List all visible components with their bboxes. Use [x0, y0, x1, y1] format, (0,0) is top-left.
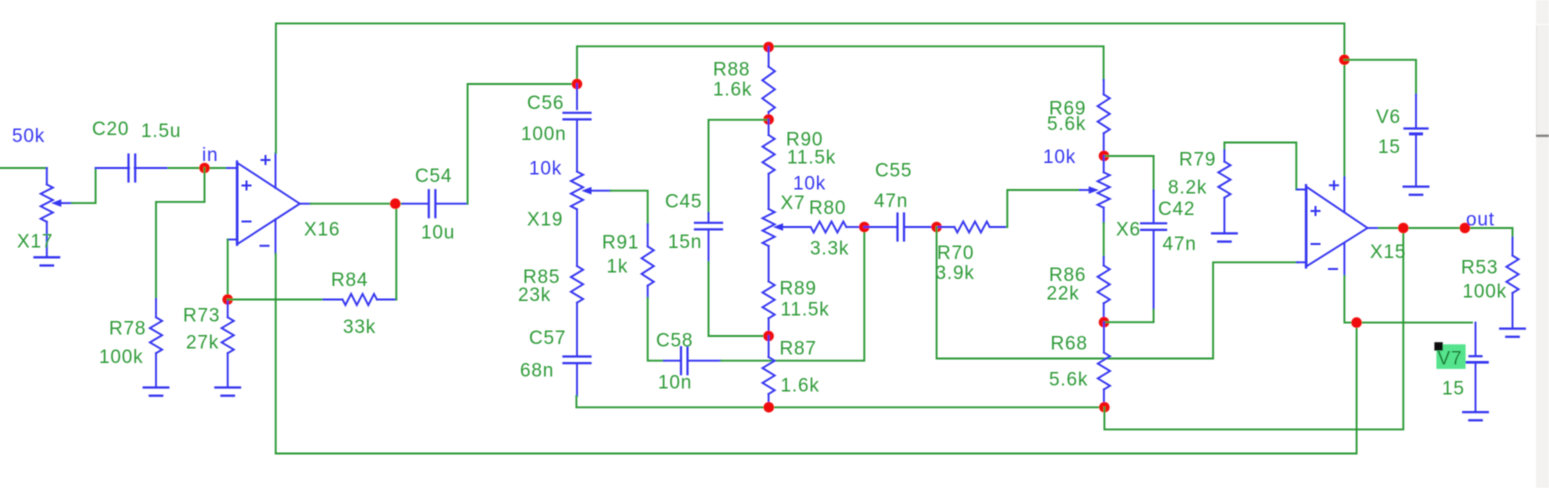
svg-text:C42: C42: [1158, 199, 1195, 220]
wire C54 up to C56 node: [468, 84, 571, 204]
label 23k (R85 value): [518, 285, 551, 306]
svg-text:10k: 10k: [529, 159, 562, 180]
svg-text:C54: C54: [415, 166, 452, 187]
label 11.5k (R90 value): [787, 148, 836, 169]
resistor R89: [763, 281, 775, 336]
svg-text:X6: X6: [1116, 220, 1141, 241]
svg-text:100n: 100n: [521, 124, 566, 145]
label 47n (C42 value): [1163, 234, 1197, 255]
svg-text:50k: 50k: [12, 126, 45, 147]
label X7: [781, 193, 806, 214]
label R87: [780, 339, 817, 360]
svg-text:68n: 68n: [520, 361, 554, 382]
label 5.6k (R68 value): [1049, 370, 1088, 391]
label 15n (C45 value): [668, 232, 702, 253]
wire R88 to C45: [709, 120, 769, 213]
wire X16 output: [311, 203, 403, 205]
svg-text:R91: R91: [602, 233, 639, 254]
capacitor C58: [664, 347, 721, 374]
svg-text:8.2k: 8.2k: [1168, 178, 1207, 199]
label R70: [937, 243, 974, 264]
label R79: [1179, 150, 1216, 171]
resistor R80: [811, 222, 859, 233]
label R91: [602, 233, 639, 254]
svg-text:11.5k: 11.5k: [781, 300, 830, 321]
wire R91 to C58: [648, 298, 664, 361]
resistor R88: [762, 47, 775, 119]
svg-text:R80: R80: [809, 198, 846, 219]
wire R86 node to C42 bottom: [1104, 310, 1154, 323]
svg-text:15: 15: [1442, 379, 1465, 400]
wire X6 to R86: [1103, 208, 1105, 266]
V7 selection highlight: [1434, 342, 1465, 369]
wire C45 to R89 node: [709, 262, 769, 336]
svg-text:5.6k: 5.6k: [1049, 370, 1088, 391]
label R89: [780, 279, 817, 300]
wire X7 to R89: [768, 246, 770, 281]
label 3.3k (R80 value): [810, 239, 849, 260]
capacitor C57: [564, 357, 591, 397]
label 10u (C54 value): [421, 223, 455, 244]
svg-text:V7: V7: [1438, 349, 1463, 370]
label 10k (X7 value): [793, 174, 826, 195]
node R86 bottom junction: [1099, 317, 1110, 328]
wire in to R78: [156, 168, 205, 299]
resistor R87: [763, 336, 775, 407]
svg-text:X7: X7: [781, 193, 806, 214]
label X6: [1116, 220, 1141, 241]
scrollbar thumb: [1536, 24, 1549, 136]
resistor R85: [571, 209, 583, 355]
svg-text:R78: R78: [109, 319, 146, 340]
svg-text:1.6k: 1.6k: [781, 376, 820, 397]
svg-text:27k: 27k: [186, 333, 219, 354]
wire V- rail bottom: [276, 254, 1357, 454]
svg-text:15n: 15n: [668, 232, 702, 253]
label C56: [527, 93, 564, 114]
label R88: [713, 60, 750, 81]
op-amp X15: [1297, 177, 1379, 276]
wire C58 to R80 node: [721, 227, 864, 361]
svg-text:C58: C58: [656, 331, 693, 352]
svg-text:5.6k: 5.6k: [1047, 114, 1086, 135]
label R90: [786, 130, 823, 151]
svg-text:11.5k: 11.5k: [787, 148, 836, 169]
svg-text:1k: 1k: [607, 257, 629, 278]
svg-text:10n: 10n: [658, 373, 692, 394]
label R85: [523, 267, 560, 288]
wire X19 wiper to R91: [611, 191, 648, 225]
resistor R91: [642, 224, 654, 298]
label out (node name): [1466, 210, 1495, 231]
svg-text:10u: 10u: [421, 223, 455, 244]
ground R53: [1500, 329, 1525, 337]
label 10k (X19 value): [529, 159, 562, 180]
label 100n (C56 value): [521, 124, 566, 145]
svg-text:X15: X15: [1370, 242, 1406, 263]
node R73 junction: [222, 294, 233, 305]
label R53: [1461, 258, 1498, 279]
wire C55 node to X15 minus: [937, 227, 1298, 359]
svg-text:1.5u: 1.5u: [141, 121, 181, 142]
label R68: [1051, 334, 1088, 355]
label 47n (C55 value): [874, 191, 908, 212]
battery V7: [1465, 323, 1488, 411]
resistor R70: [937, 222, 1007, 233]
svg-text:X19: X19: [527, 210, 563, 231]
svg-text:10k: 10k: [793, 174, 826, 195]
wire C20 to opamp: [168, 167, 227, 169]
ground R78: [144, 388, 169, 396]
svg-text:V6: V6: [1376, 107, 1401, 128]
label V7: [1438, 349, 1463, 370]
capacitor C20: [96, 155, 169, 182]
label 8.2k (R79 value): [1168, 178, 1207, 199]
svg-text:R53: R53: [1461, 258, 1498, 279]
wire X15 output: [1379, 228, 1513, 238]
label R78: [109, 319, 146, 340]
label X19: [527, 210, 563, 231]
label 10n (C58 value): [658, 373, 692, 394]
node R87 bottom junction: [764, 402, 775, 413]
resistor R84: [324, 294, 397, 305]
resistor R86: [1098, 266, 1110, 323]
label R86: [1049, 265, 1086, 286]
resistor R79: [1218, 150, 1230, 232]
svg-text:R84: R84: [331, 270, 368, 291]
wire R69 node to C42: [1104, 156, 1154, 190]
svg-text:C56: C56: [527, 93, 564, 114]
label C20: [92, 119, 129, 140]
node out junction: [1460, 223, 1471, 234]
label 1.6k (R88 value): [713, 80, 752, 101]
capacitor C45: [695, 213, 722, 262]
svg-text:47n: 47n: [874, 191, 908, 212]
node in junction: [199, 163, 210, 174]
svg-text:R88: R88: [713, 60, 750, 81]
resistor R68: [1098, 322, 1110, 407]
resistor R78: [150, 299, 162, 387]
node V+ rail junction: [1339, 55, 1350, 66]
label 15 (V7 value): [1442, 379, 1465, 400]
label V6: [1376, 107, 1401, 128]
label 33k (R84 value): [343, 317, 376, 338]
ground V7: [1463, 412, 1488, 420]
svg-text:C45: C45: [665, 192, 702, 213]
label X17: [17, 232, 53, 253]
label C45: [665, 192, 702, 213]
svg-text:10k: 10k: [1043, 147, 1076, 168]
resistor R53: [1506, 238, 1518, 327]
label 100k (R53 value): [1463, 282, 1507, 303]
label R69: [1049, 99, 1086, 120]
svg-text:R70: R70: [937, 243, 974, 264]
svg-text:R73: R73: [183, 306, 220, 327]
node X16 output junction: [390, 198, 401, 209]
svg-text:C20: C20: [92, 119, 129, 140]
resistor R90: [763, 120, 775, 210]
label 15 (V6 value): [1378, 137, 1401, 158]
label 50k (X17 value): [12, 126, 45, 147]
label 68n (C57 value): [520, 361, 554, 382]
wire R70 to X6 wiper: [1007, 190, 1080, 227]
potentiometer X6: [1080, 156, 1110, 208]
resistor R69: [1098, 80, 1110, 156]
potentiometer X7: [763, 209, 811, 246]
svg-text:33k: 33k: [343, 317, 376, 338]
ground X17: [35, 257, 60, 265]
label C54: [415, 166, 452, 187]
wire V+ to V6: [1344, 60, 1416, 95]
wire X16 minus input: [227, 240, 229, 300]
svg-text:1.6k: 1.6k: [713, 80, 752, 101]
scrollbar track: [1536, 0, 1549, 488]
svg-text:15: 15: [1378, 137, 1401, 158]
svg-text:C55: C55: [875, 161, 912, 182]
label 5.6k (R69 value): [1047, 114, 1086, 135]
label 27k (R73 value): [186, 333, 219, 354]
svg-text:100k: 100k: [99, 347, 143, 368]
label 1k (R91 value): [607, 257, 629, 278]
ground R73: [215, 388, 240, 396]
label C58: [656, 331, 693, 352]
node R88 top junction: [763, 42, 774, 53]
node Vminus junction: [1351, 317, 1362, 328]
capacitor C55: [864, 214, 936, 241]
node R80 C55 junction: [859, 222, 870, 233]
wire R68 node to out node: [1104, 228, 1403, 429]
label R73: [183, 306, 220, 327]
svg-text:23k: 23k: [518, 285, 551, 306]
potentiometer X19: [571, 172, 611, 210]
label 10k (X6 value): [1043, 147, 1076, 168]
svg-text:C57: C57: [529, 328, 566, 349]
wire X17 wiper: [72, 169, 96, 203]
label X15: [1370, 242, 1406, 263]
capacitor C42: [1141, 190, 1166, 309]
svg-text:22k: 22k: [1047, 284, 1080, 305]
svg-text:out: out: [1466, 210, 1495, 231]
wire R73 to R84: [228, 299, 324, 301]
label 22k (R86 value): [1047, 284, 1080, 305]
node X15 output junction: [1398, 223, 1409, 234]
label C57: [529, 328, 566, 349]
label 3.9k (R70 value): [936, 263, 975, 284]
capacitor C54: [403, 190, 468, 217]
wire X15 Vminus: [1344, 276, 1472, 323]
node R89 bottom junction: [763, 331, 774, 342]
label 1.5u (C20 value): [141, 121, 181, 142]
svg-text:R68: R68: [1051, 334, 1088, 355]
wire R84 to C54 node: [395, 204, 397, 300]
resistor R73: [222, 300, 234, 387]
node R88 bottom junction: [763, 114, 774, 125]
wire V+ rail top: [276, 23, 1345, 177]
node C55 R70 junction: [931, 222, 942, 233]
svg-text:3.9k: 3.9k: [936, 263, 975, 284]
wire bottom node: [576, 396, 1104, 407]
svg-text:X16: X16: [304, 220, 340, 241]
ground V6: [1404, 187, 1429, 195]
svg-text:R87: R87: [780, 339, 817, 360]
battery V6: [1405, 95, 1428, 185]
svg-text:47n: 47n: [1163, 234, 1197, 255]
label X16: [304, 220, 340, 241]
label 11.5k (R89 value): [781, 300, 830, 321]
svg-text:X17: X17: [17, 232, 53, 253]
label 1.6k (R87 value): [781, 376, 820, 397]
label R80: [809, 198, 846, 219]
label R84: [331, 270, 368, 291]
node R69 bottom junction: [1099, 151, 1110, 162]
node R68 bottom junction: [1099, 402, 1110, 413]
capacitor C56: [564, 84, 591, 172]
svg-text:R79: R79: [1179, 150, 1216, 171]
ground R79: [1212, 233, 1237, 241]
label C55: [875, 161, 912, 182]
potentiometer X17: [41, 168, 72, 256]
label 100k (R78 value): [99, 347, 143, 368]
wire R79 to X15 plus: [1224, 143, 1297, 190]
svg-text:R89: R89: [780, 279, 817, 300]
wire input left: [0, 167, 47, 169]
op-amp X16: [227, 153, 311, 254]
node C56 junction: [572, 79, 583, 90]
svg-text:100k: 100k: [1463, 282, 1507, 303]
wire mid rail: [577, 46, 1104, 84]
label in (node name): [202, 145, 218, 166]
svg-text:in: in: [202, 145, 218, 166]
label C42: [1158, 199, 1195, 220]
svg-text:3.3k: 3.3k: [810, 239, 849, 260]
